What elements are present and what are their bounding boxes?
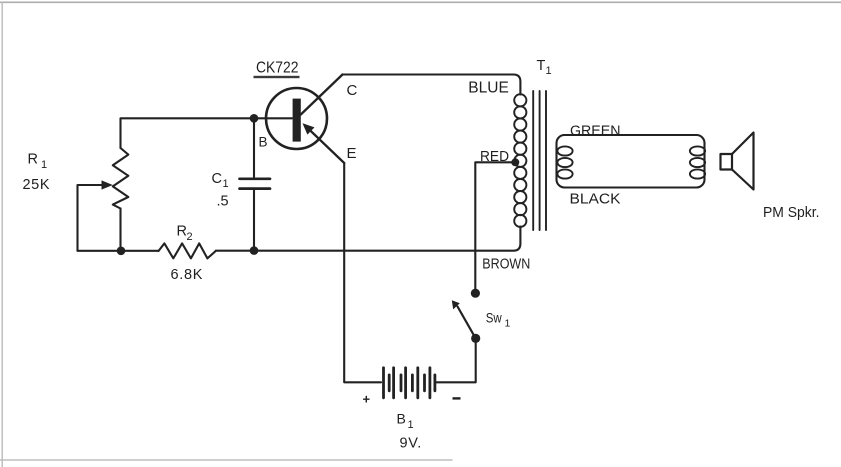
transistor Q1 emitter stroke [305, 126, 344, 164]
transformer T1 secondary loop [557, 135, 705, 188]
wire top rail (R1 top to base node) [121, 118, 255, 148]
switch Sw1 pivot dot [471, 334, 480, 343]
wire bottom rail left [78, 250, 159, 252]
wire collector to transformer primary top [343, 75, 521, 95]
secondary winding bumps right [690, 146, 705, 178]
svg-text:T: T [537, 58, 546, 74]
svg-text:C: C [347, 82, 358, 99]
wire emitter down to battery [344, 163, 381, 382]
capacitor C1 bottom plate [240, 187, 271, 190]
node RED tap dot [511, 158, 519, 166]
transistor Q1 base bar [293, 99, 301, 142]
wire bottom rail right [216, 227, 521, 251]
svg-text:1: 1 [505, 318, 511, 330]
svg-text:RED: RED [480, 148, 509, 165]
resistor R2 zigzag [159, 243, 216, 258]
battery B1 plates [384, 368, 435, 398]
node base junction dot [250, 114, 259, 123]
svg-text:.5: .5 [217, 194, 229, 210]
label minus [453, 397, 461, 399]
page border top [0, 1, 841, 3]
svg-text:PM Spkr.: PM Spkr. [763, 204, 820, 221]
svg-text:B: B [259, 135, 268, 150]
svg-text:C: C [212, 171, 222, 187]
transistor Q1 emitter arrow (PNP, pointing to base) [303, 123, 315, 134]
page border left [1, 2, 3, 467]
wire base lead into transistor [254, 117, 292, 119]
node C1 bottom junction dot [250, 246, 259, 255]
transformer T1 core lines [532, 91, 534, 230]
R1 wiper arrow [102, 180, 113, 189]
speaker driver box [721, 154, 733, 170]
svg-text:BLUE: BLUE [468, 79, 509, 96]
svg-text:1: 1 [223, 178, 229, 190]
svg-text:R: R [28, 152, 38, 168]
svg-text:Sw: Sw [486, 311, 502, 326]
CK722 underline [254, 76, 300, 78]
svg-text:9V.: 9V. [400, 436, 423, 452]
R1 wiper wire [78, 185, 104, 251]
svg-text:2: 2 [187, 231, 193, 243]
svg-text:CK722: CK722 [256, 60, 299, 77]
svg-text:1: 1 [546, 65, 552, 77]
svg-text:1: 1 [41, 159, 47, 171]
potentiometer R1 body zigzag [113, 148, 129, 209]
wire C1 to bottom rail [253, 190, 255, 251]
wire base node to C1 [253, 118, 255, 177]
page border bottom [0, 459, 452, 461]
svg-text:R: R [177, 224, 187, 240]
R1 bottom lead [119, 209, 121, 251]
svg-text:B: B [397, 411, 406, 427]
svg-text:6.8K: 6.8K [171, 267, 204, 283]
transformer T1 primary winding [514, 94, 526, 227]
svg-text:+: + [363, 392, 371, 407]
svg-text:25K: 25K [23, 177, 51, 193]
svg-text:E: E [347, 145, 357, 162]
switch Sw1 lever [458, 307, 476, 339]
wire RED tap [475, 162, 516, 289]
svg-text:BLACK: BLACK [570, 191, 621, 208]
svg-text:1: 1 [408, 419, 414, 431]
switch Sw1 lever arrow [452, 300, 460, 309]
svg-text:GREEN: GREEN [570, 122, 621, 139]
secondary winding bumps left [557, 146, 572, 178]
wire switch to battery negative [437, 338, 476, 382]
transistor Q1 collector stroke [301, 75, 343, 115]
speaker horn [732, 133, 754, 190]
node R1 bottom junction dot [117, 247, 126, 256]
switch Sw1 top contact dot [471, 289, 480, 298]
capacitor C1 top plate [240, 177, 271, 180]
svg-text:BROWN: BROWN [482, 255, 530, 272]
transistor Q1 circle [266, 88, 327, 149]
